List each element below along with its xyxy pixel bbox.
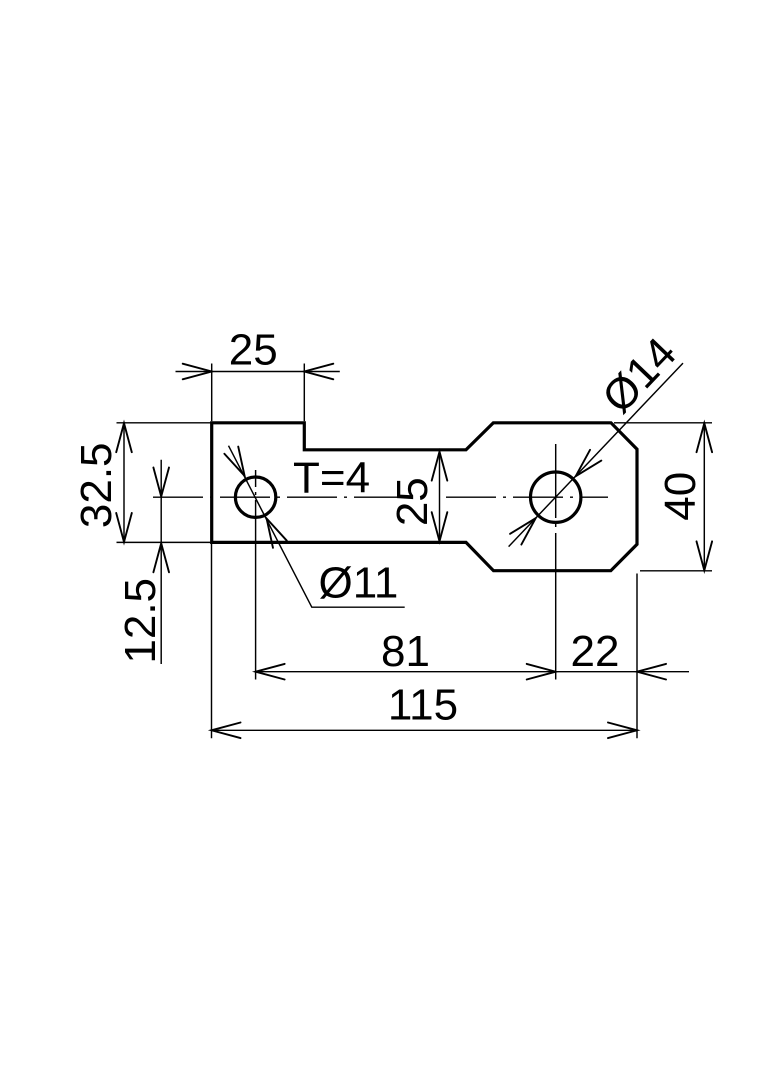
- dimension 32.5 (left) extension lines: [117, 423, 211, 543]
- dimension 115 extension line (left): [211, 544, 213, 738]
- svg-text:32.5: 32.5: [72, 442, 121, 528]
- dimension 115 value label: [388, 681, 458, 730]
- part outline: [212, 423, 637, 571]
- dimension 81 value label: [381, 627, 430, 676]
- svg-text:Ø11: Ø11: [319, 559, 399, 608]
- dimension 40 (right) extension lines: [614, 423, 712, 571]
- svg-text:115: 115: [388, 681, 458, 730]
- svg-text:81: 81: [381, 627, 430, 676]
- dimension 25 (top) dimension line: [176, 364, 340, 380]
- hole 2 vertical centerline: [555, 444, 557, 680]
- hole 1 vertical centerline: [255, 470, 257, 680]
- svg-text:25: 25: [388, 477, 437, 526]
- Ø14 value label: [593, 328, 686, 422]
- dimension 32.5 (left) value label: [72, 442, 121, 528]
- dimension 25 (middle vertical) dimension line: [432, 451, 448, 541]
- dimension 81 and 22 dimension line: [256, 664, 689, 680]
- dimension 25 (top) value label: [229, 325, 278, 374]
- dimension 115 dimension line: [212, 723, 638, 739]
- dimension 12.5 (left lower) dimension line: [153, 460, 169, 664]
- dimension 22 value label: [571, 627, 620, 676]
- svg-text:Ø14: Ø14: [593, 328, 686, 422]
- Ø11 value label: [319, 559, 399, 608]
- dimension 12.5 value label: [116, 578, 165, 664]
- dimension 81/22 extension line (right edge): [636, 574, 638, 739]
- svg-text:40: 40: [656, 472, 705, 521]
- hole 1 (Ø11): [235, 477, 275, 517]
- leader Ø14: [509, 363, 683, 546]
- svg-text:T=4: T=4: [293, 454, 370, 503]
- hole 2 (Ø14): [531, 472, 581, 522]
- svg-text:22: 22: [571, 627, 620, 676]
- dimension 25 (middle) value label: [388, 477, 437, 526]
- svg-text:12.5: 12.5: [116, 578, 165, 664]
- dimension 25 (top) extension lines: [212, 364, 305, 422]
- dimension 40 value label: [656, 472, 705, 521]
- dimension 40 (right) dimension line: [697, 423, 713, 571]
- dimension 32.5 (left) dimension line: [116, 423, 132, 543]
- svg-text:25: 25: [229, 325, 278, 374]
- thickness label T=4: [293, 454, 370, 503]
- horizontal centerline: [153, 496, 608, 498]
- leader Ø11: [224, 446, 404, 608]
